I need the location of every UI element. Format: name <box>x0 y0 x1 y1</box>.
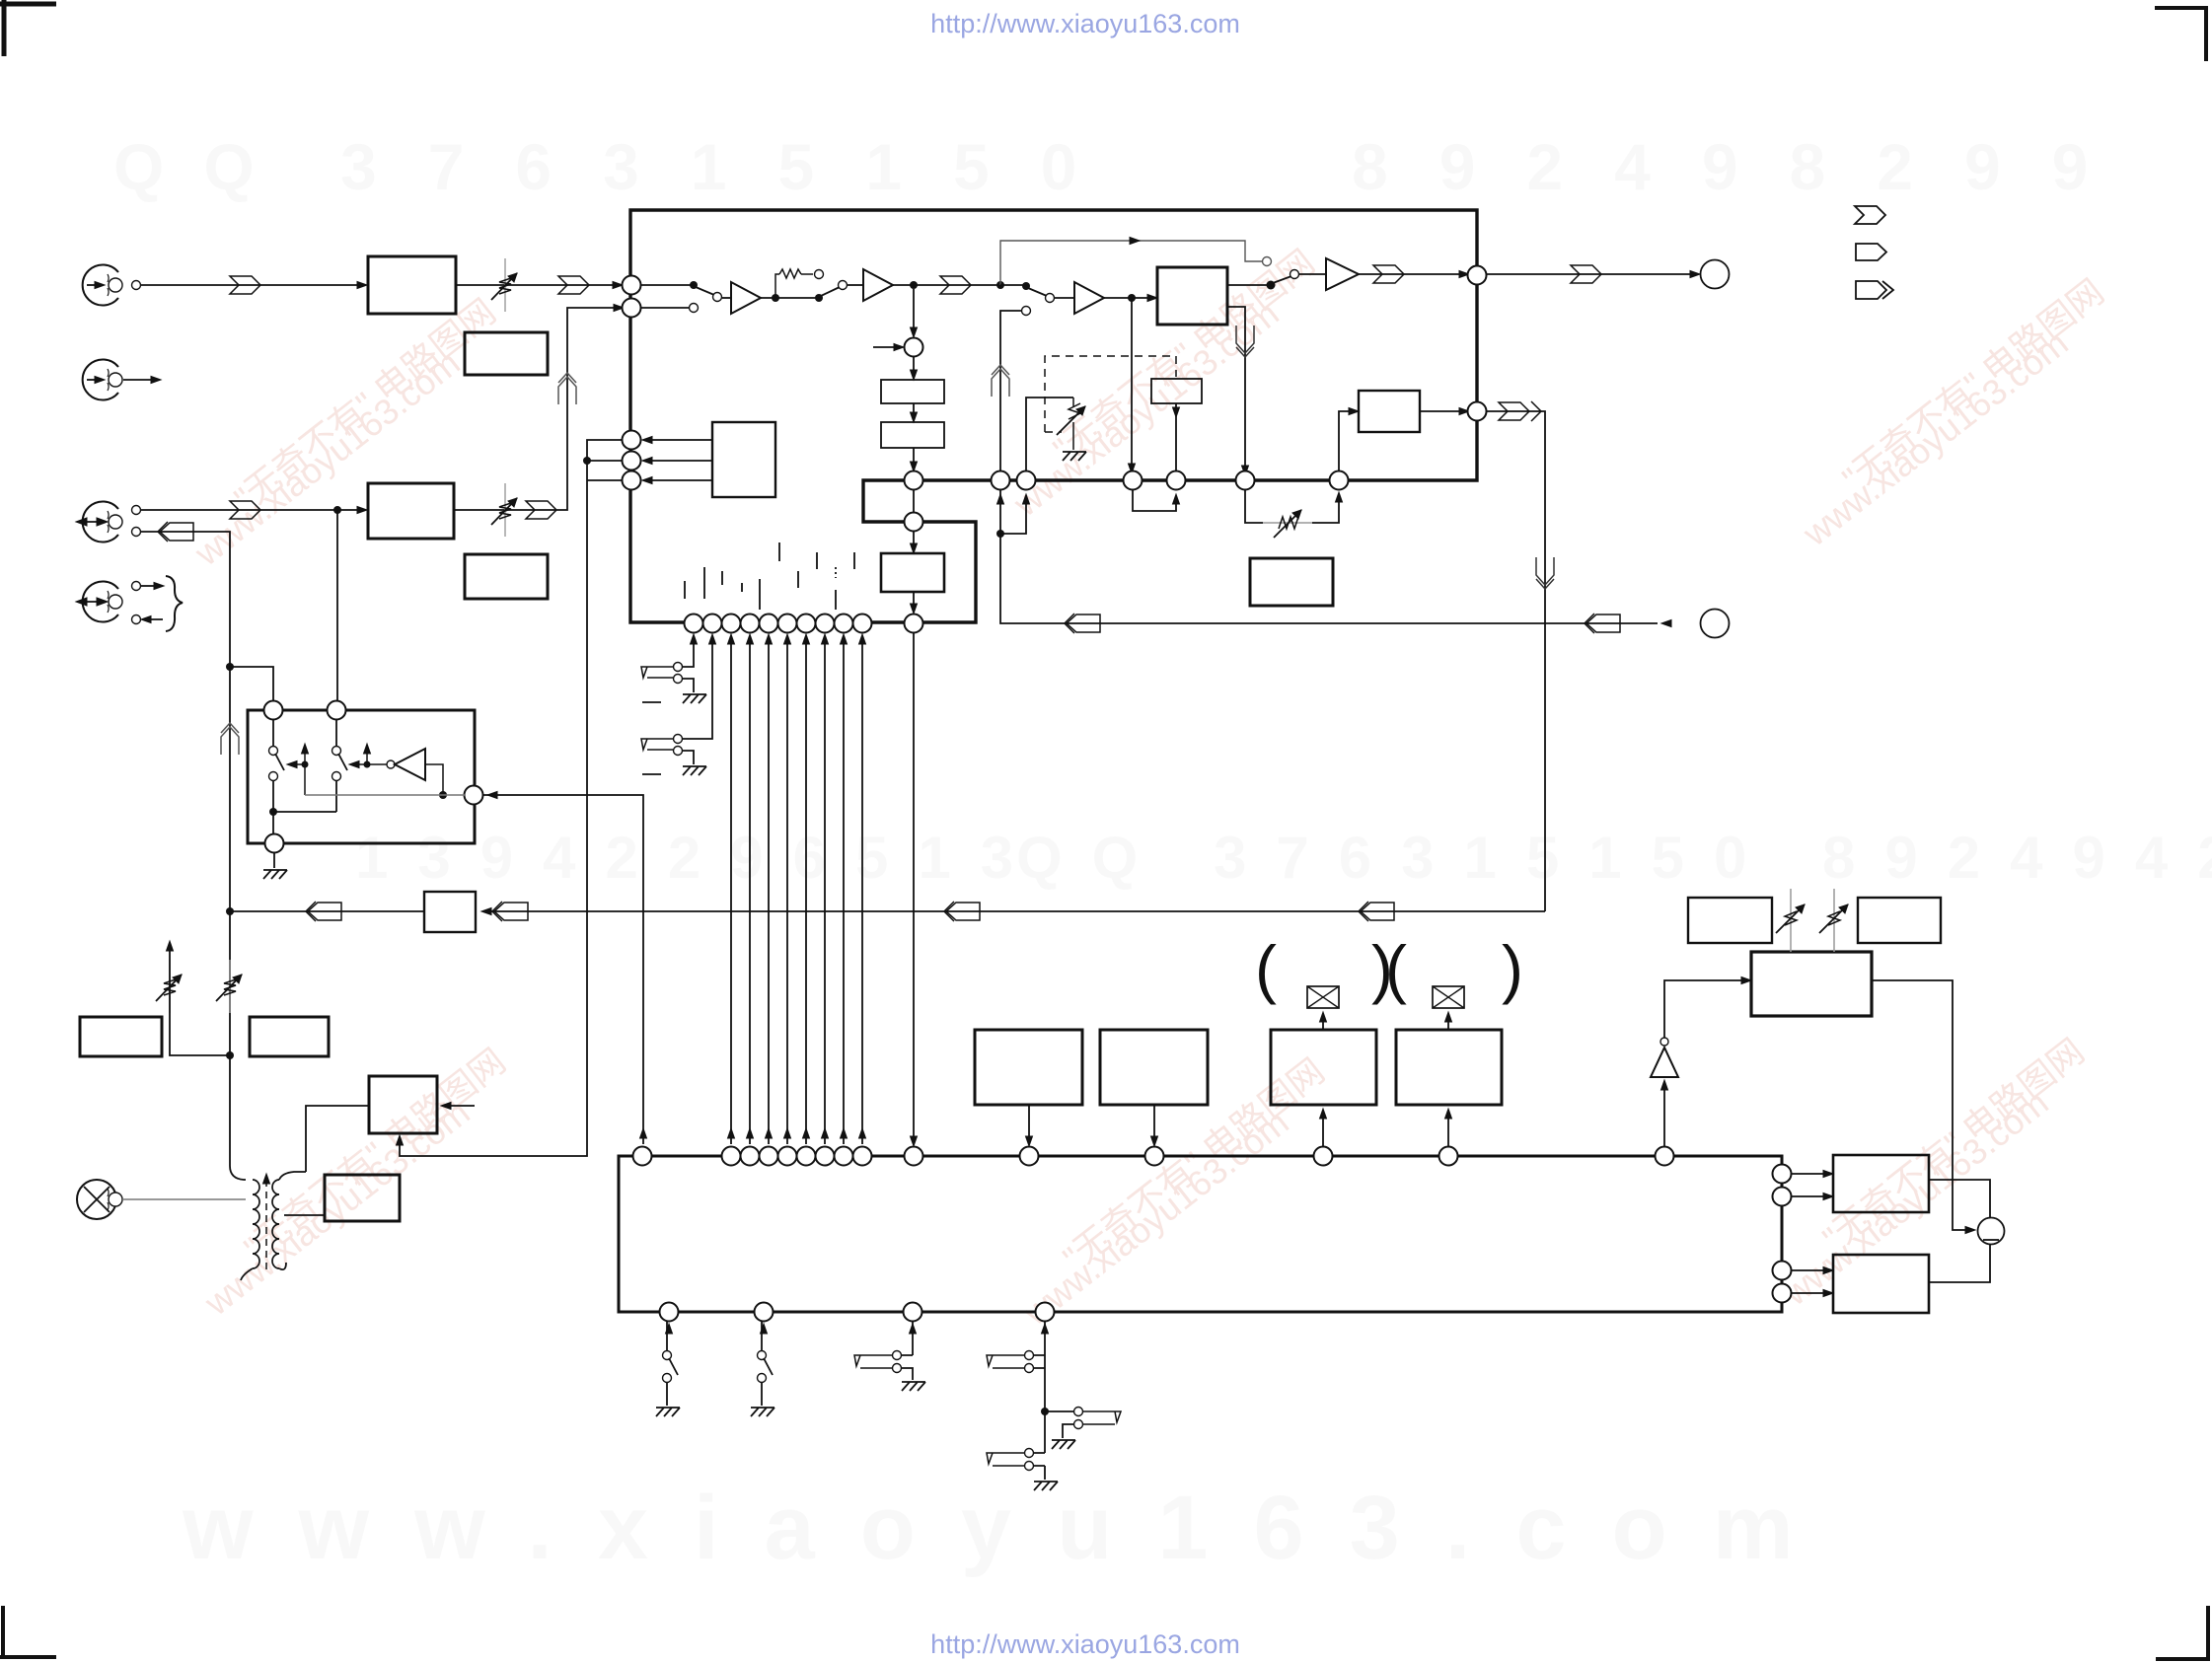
wires S1 to left pins <box>643 440 712 480</box>
chevron connector CN5 <box>526 501 556 519</box>
chevron connector CN7 <box>940 276 971 294</box>
jack J1 (line input) <box>83 265 122 306</box>
bus wires pins 3-10 down to IC2 <box>731 641 862 1144</box>
wire control into pin D <box>305 794 465 796</box>
wire N1 to S2 <box>913 357 915 376</box>
ground JS1 <box>902 1382 925 1391</box>
bus pin P15 <box>1017 471 1036 490</box>
wire pin1 to switch SW1 <box>641 284 694 286</box>
variable resistor VR2 <box>491 483 517 537</box>
SB1 pin C bottom <box>265 834 284 853</box>
block BL2 <box>250 1017 329 1056</box>
wire SD to E2 <box>1447 1016 1449 1030</box>
IC1 left-edge pin 2 <box>623 299 641 318</box>
lamp LP1 <box>77 1180 116 1219</box>
stub arrow into N1 left <box>873 346 898 348</box>
wire SW5/SW6 link <box>269 808 277 816</box>
ground SW7 <box>656 1408 680 1416</box>
block SD (solenoid driver) <box>1396 1030 1502 1105</box>
chevron connector CN17 left <box>944 902 980 921</box>
transformer T-PS <box>230 1166 246 1180</box>
wire N4 down to IC2 <box>913 633 915 1144</box>
op-amp A2 <box>863 269 893 301</box>
wire J1 to B1 <box>141 284 361 286</box>
parentheses labels <box>1255 932 1523 1005</box>
wire pins to common rail <box>400 440 622 1156</box>
op-amp A1 <box>731 282 761 314</box>
bus pin N2 <box>905 471 923 490</box>
IC1 main block outline <box>630 210 1477 622</box>
ground JS4 <box>1034 1482 1058 1490</box>
wire R2 to motor <box>1929 1245 1990 1282</box>
block T1 (speed adj label) <box>1688 898 1772 943</box>
wire SW1 to amp A1 <box>722 297 731 299</box>
left rail x233 <box>229 676 231 1166</box>
junction A4 out <box>1128 294 1136 302</box>
wire junction A2 down into N1 <box>913 289 915 333</box>
svg-text:892498299: 892498299 <box>1352 130 2139 203</box>
wire S2 to S3 <box>913 403 915 418</box>
wire B4 second output down <box>1227 307 1245 471</box>
wire RC to left node <box>230 910 424 912</box>
corner crop mark top-left <box>0 0 56 56</box>
IC2 bottom pin Q3 <box>904 1303 922 1322</box>
wire U2 feed <box>425 764 443 795</box>
svg-text:(: ( <box>1385 932 1407 1005</box>
wire N3 to S4 <box>913 532 915 549</box>
chevron connector CN14 <box>1499 402 1529 420</box>
IC1 right-edge pin out1 <box>1468 266 1487 285</box>
block S3 (filter) <box>881 422 944 448</box>
IC2 bottom pin Q2 <box>755 1303 774 1322</box>
block SC (solenoid driver) <box>1271 1030 1376 1105</box>
chevron connector CN13 left <box>1585 614 1620 633</box>
dashed adjust box <box>1045 356 1176 432</box>
switch SW8 below Q2 <box>761 1322 763 1350</box>
up arrows above IC2 bus pins <box>728 1128 866 1138</box>
loop wire P18-P19 via VR4 <box>1245 490 1339 523</box>
IC1 left-edge pin 4 <box>623 452 641 470</box>
junction A2 out <box>910 281 918 289</box>
IC2 right pins lower <box>1773 1262 1792 1280</box>
branch JS4 below <box>1044 1411 1046 1480</box>
switch SW7 below Q1 <box>666 1322 668 1350</box>
block B4L (label box) <box>465 554 548 599</box>
junction A1 out <box>772 294 779 302</box>
block SA (reel sensor) <box>975 1030 1082 1105</box>
break mark <box>642 701 661 703</box>
wire pin to inverter U3 <box>1663 1082 1665 1146</box>
junction rail <box>583 457 591 465</box>
wire A1 to SW2 <box>761 297 819 299</box>
wire B4 out to SW4 <box>1227 284 1271 286</box>
wire J2 lower with chevron <box>141 532 230 658</box>
output jack JO1 <box>1701 260 1730 289</box>
junction node J2/switch-box feed <box>333 506 341 514</box>
stub wire J4 <box>123 379 153 381</box>
chevron connector CN10 <box>1571 265 1601 283</box>
wire B5 to pin P20 <box>1420 410 1463 412</box>
wire M5 to motor <box>1872 980 1971 1230</box>
bus pin P16 <box>1124 471 1143 490</box>
stub into M1 right <box>443 1105 475 1107</box>
under-bus junction wires <box>1000 490 1658 623</box>
wire J2 upper to B3 <box>141 509 361 511</box>
wire P19 up to B5 <box>1339 411 1353 470</box>
dotted stub <box>835 567 837 578</box>
corner crop mark bottom-right <box>2156 1606 2210 1661</box>
block B3 (rec amp) <box>368 483 454 539</box>
wire SW3 to amp A4 <box>1055 297 1074 299</box>
SB1 pin B <box>328 701 346 720</box>
svg-text:13942296513: 13942296513 <box>355 825 1043 891</box>
chevron connector CN1 <box>230 276 260 294</box>
svg-text:376315150: 376315150 <box>340 130 1128 203</box>
ground VR3 <box>1063 452 1086 461</box>
bottom edge pin N4 <box>905 615 923 633</box>
headphone jack JH2 <box>641 739 673 750</box>
stub arrows J3 <box>141 585 156 587</box>
junction rail top <box>226 663 234 671</box>
wire B3 out <box>454 308 618 510</box>
break mark <box>642 773 661 775</box>
bus pin P17 <box>1167 471 1186 490</box>
wire S4 to pin N4 <box>913 592 915 610</box>
transformer core dashed <box>265 1180 267 1274</box>
junction bypass tap <box>996 281 1004 289</box>
wire P20 out and down <box>1487 411 1545 911</box>
SW5 drive node <box>302 761 309 768</box>
motor MT1 <box>1978 1218 2005 1245</box>
bus pin P19 <box>1330 471 1349 490</box>
chevron connector CN4 <box>158 522 193 542</box>
block B2 (label box) <box>465 332 548 375</box>
resistor R-bypass <box>775 274 813 298</box>
svg-text:http://www.xiaoyu163.com: http://www.xiaoyu163.com <box>930 9 1240 38</box>
block SB (rec sensor) <box>1100 1030 1208 1105</box>
svg-text:): ) <box>1502 932 1523 1005</box>
junction VR rail <box>226 1051 234 1059</box>
IC1 bottom pin row (10 pins) <box>685 615 872 633</box>
switch SW6 <box>335 720 337 746</box>
svg-text:(: ( <box>1255 932 1277 1005</box>
block B4 (dolby) <box>1157 267 1227 325</box>
switch SW3 <box>1000 284 1026 286</box>
wire rail to switchbox pin <box>230 667 273 701</box>
SW6 drive node <box>364 761 371 768</box>
wire secondary to M1 <box>306 1106 369 1172</box>
block RC (rec cal) <box>424 892 476 932</box>
chevron connector CN9 <box>1373 265 1404 283</box>
chevron connector CN8 up <box>992 365 1009 397</box>
wire U3 to M5 <box>1664 980 1746 1038</box>
wire SW3 lower throw down <box>1000 311 1021 471</box>
IC2 bottom pin Q1 <box>660 1303 679 1322</box>
curly brace J3 <box>166 576 183 631</box>
trimmer VR3 <box>1072 398 1074 406</box>
block S2 (filter) <box>881 380 944 403</box>
wire A4 junction down to pin <box>1131 298 1133 470</box>
IC2 top bus pins <box>722 1147 872 1166</box>
wire B1 to pin <box>456 284 623 286</box>
IC2 top pin T1 <box>633 1147 652 1166</box>
block T2 (speed adj label) <box>1858 898 1941 943</box>
wire A2 to node <box>893 284 1000 286</box>
legend symbol chevron type A <box>1855 206 1885 224</box>
external control wire <box>483 795 643 1144</box>
inner chain node N1 <box>905 338 923 357</box>
svg-text:http://www.xiaoyu163.com: http://www.xiaoyu163.com <box>930 1629 1240 1659</box>
switch SW4 <box>1267 281 1276 290</box>
legend symbol flag type B <box>1856 244 1886 260</box>
chevron connector CN3 <box>230 501 260 519</box>
solenoid coil E1 <box>1307 986 1339 1008</box>
bus pin P18 <box>1236 471 1255 490</box>
IC2 top pin sensors <box>1020 1147 1039 1166</box>
up arrows into bottom pins <box>691 634 866 644</box>
SB1 pin D right <box>465 786 483 805</box>
wire lamp to transformer <box>122 1198 246 1200</box>
contact circles J2 <box>132 506 141 515</box>
chevron connector CN11 down <box>1236 325 1254 357</box>
ground SB1 <box>273 852 275 868</box>
wire pin P15 to trimmer <box>1026 398 1073 470</box>
IC2 right pins upper <box>1773 1165 1792 1184</box>
switch SW2 <box>815 294 823 302</box>
IC1 left-edge pin 5 <box>623 471 641 490</box>
IC2 system control box <box>619 1156 1782 1312</box>
chevron connector CN15 down <box>1536 557 1554 589</box>
broken bus stubs below S1 <box>685 542 854 610</box>
chevron connector CN20 left <box>492 902 528 921</box>
trimmer VR7 <box>1790 889 1792 952</box>
wire SC to E1 <box>1322 1016 1324 1030</box>
wire SA to pin <box>1028 1105 1030 1142</box>
wire R1 to motor <box>1929 1180 1990 1217</box>
wires to R2 <box>1792 1270 1827 1293</box>
svg-text:QQ: QQ <box>113 130 294 203</box>
IC1 left-edge pin 1 <box>623 276 641 295</box>
wire N2-N3 <box>913 490 915 512</box>
op-amp A4 <box>1074 282 1104 314</box>
loop wire P16-P17 <box>1133 490 1176 511</box>
wire pin to SD <box>1447 1113 1449 1146</box>
chevron connector CN12 left <box>1065 614 1100 633</box>
wire A3 to pin out <box>1359 273 1463 275</box>
inverter U2 <box>367 763 387 765</box>
wire S5 to pin P17 <box>1175 403 1177 470</box>
junction left rail <box>226 907 234 915</box>
block M5 (motor servo) <box>1751 952 1872 1016</box>
wire pin to SC <box>1322 1113 1324 1146</box>
jack sense JS2 <box>1044 1322 1046 1411</box>
IC1 right-edge pin P20 <box>1468 402 1487 421</box>
wire SW2 to amp A2 <box>848 284 863 286</box>
corner crop mark top-right <box>2155 6 2208 61</box>
output jack JO2 <box>1701 610 1730 638</box>
variable resistor VR5 <box>156 960 182 1013</box>
wire VR5 branch <box>170 945 230 1055</box>
wire SB to pin <box>1153 1105 1155 1142</box>
wire pin2 to SW1 lower throw <box>641 307 689 309</box>
switch box SB1 <box>248 710 475 843</box>
block M2 (rectifier) <box>325 1175 400 1221</box>
chevron connector CN2 <box>558 276 589 294</box>
block S1 (bias osc) <box>712 422 775 497</box>
junction JS2 <box>1041 1408 1049 1415</box>
block M1 (power reg) <box>369 1076 437 1133</box>
block BL1 <box>80 1017 162 1056</box>
SB1 pin A <box>264 701 283 720</box>
block R2 (motor drive rev) <box>1833 1255 1929 1313</box>
block S4 (meter drive) <box>881 553 944 592</box>
legend symbol flag type C <box>1856 281 1893 299</box>
inverter U3 <box>1651 1048 1678 1077</box>
jack sense JS1 <box>912 1322 914 1355</box>
jack J3 (line out) <box>83 582 122 622</box>
jack J2 (rec/pb) <box>83 502 122 542</box>
wire secondary to M2 <box>284 1214 325 1216</box>
wire bypass feedback to SW4 upper throw <box>1000 241 1262 285</box>
pink watermark groups <box>186 242 2111 1334</box>
svg-text:www.xiaoyu163.com: www.xiaoyu163.com <box>182 1478 1839 1578</box>
block B5 (mpx filter) <box>1359 391 1420 432</box>
switch SW5 <box>272 720 274 746</box>
jack J4 (aux input) <box>83 360 122 400</box>
feedback line y924 <box>485 910 1545 912</box>
bus pin P14 <box>992 471 1010 490</box>
op-amp A3 <box>1326 258 1359 290</box>
wire SW4 to amp A3 <box>1299 273 1326 275</box>
contact circle J1 tip <box>132 281 141 290</box>
chevron connector CN18 left <box>306 902 341 921</box>
trimmer VR8 <box>1833 889 1835 952</box>
bus pin N3 <box>905 513 923 532</box>
ground SW8 <box>751 1408 774 1416</box>
block B1 (head amp) <box>368 256 456 314</box>
IC1 left-edge pin 3 <box>623 431 641 450</box>
ground JH1 <box>683 694 706 703</box>
chevron connector CN19 up <box>221 723 239 755</box>
variable resistor VR4 <box>1263 510 1312 538</box>
ground JS3 <box>1052 1440 1075 1449</box>
variable resistor VR6 <box>216 960 242 1013</box>
corner crop mark bottom-left <box>0 1606 56 1659</box>
chevron connector CN16 left <box>1359 902 1394 921</box>
svg-text:QQ 376315150 8924942: QQ 376315150 8924942 <box>1016 825 2212 891</box>
wire out1 to jack <box>1487 273 1693 275</box>
ground JH2 <box>683 766 706 775</box>
headphone jack JH1 at pins 1-2 <box>641 667 673 678</box>
wires to R1 <box>1792 1174 1827 1196</box>
solenoid coil E2 <box>1433 986 1464 1008</box>
chevron connector CN6 up <box>558 373 576 404</box>
variable resistor VR1 <box>491 258 517 312</box>
wire A4 to B4 <box>1104 297 1151 299</box>
IC2 bottom pin Q4 <box>1036 1303 1055 1322</box>
block SYS label <box>1250 558 1333 606</box>
IC2 top pin for meter bus <box>905 1147 923 1166</box>
block S5 (pll) <box>1151 379 1202 403</box>
branch to JS3 right <box>1045 1410 1073 1412</box>
wire junction down to switch box pin <box>336 510 338 701</box>
contact circles J3 <box>132 582 141 591</box>
block R1 (motor drive fwd) <box>1833 1155 1929 1212</box>
wire S3 to bus pin <box>913 448 915 468</box>
switch SW1 <box>690 281 698 289</box>
